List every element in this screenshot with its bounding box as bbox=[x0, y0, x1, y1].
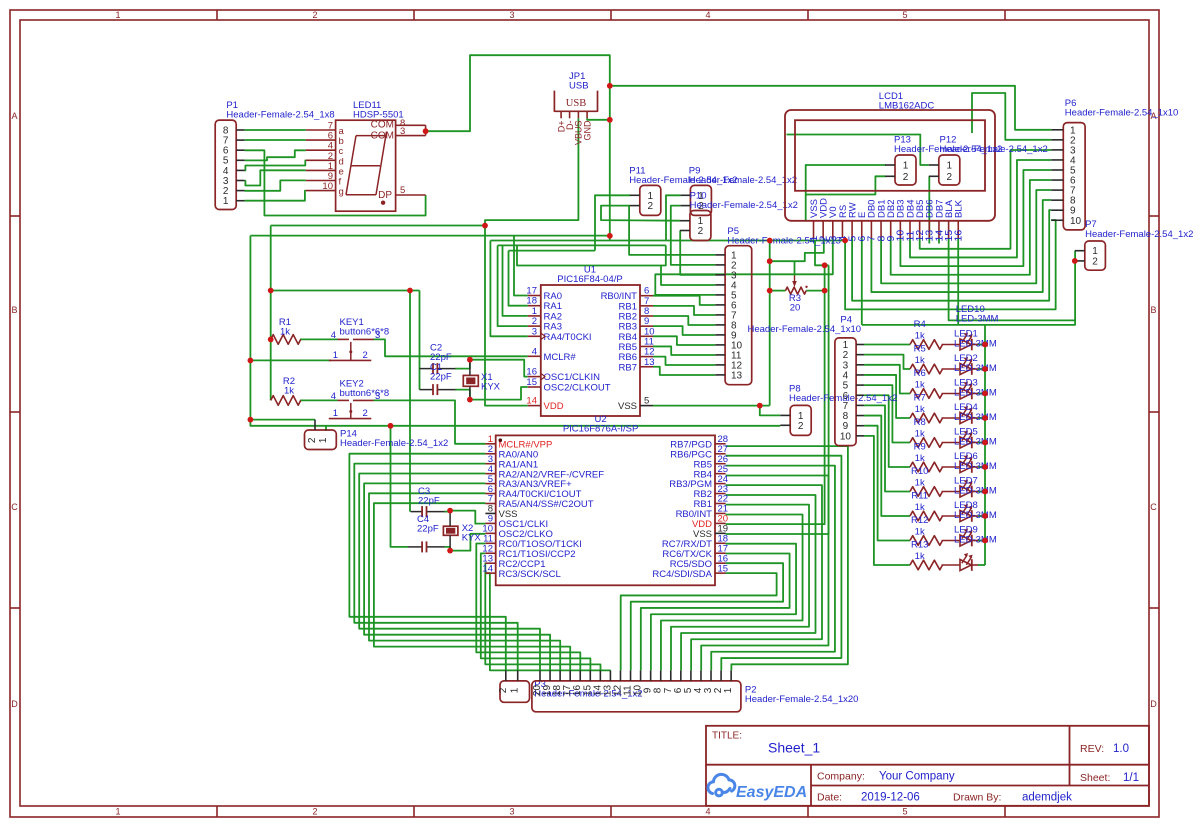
svg-text:RA4/T0CKI: RA4/T0CKI bbox=[544, 332, 592, 343]
wire P9.2-P5.2 bbox=[671, 206, 716, 265]
title block dividers bbox=[706, 764, 1149, 766]
U2 pin 28 RB7/PGD bbox=[715, 443, 726, 445]
svg-text:1/1: 1/1 bbox=[1123, 772, 1139, 784]
connector P9 Header-Female-2.54_1x2 bbox=[690, 185, 711, 215]
svg-text:4: 4 bbox=[331, 330, 336, 341]
wire X1-OSC1 bbox=[470, 360, 528, 377]
wire U1.RB2-P5.8 bbox=[653, 316, 715, 325]
wire P1.1-LED11.g bbox=[245, 191, 306, 201]
svg-text:B: B bbox=[11, 305, 17, 315]
capacitor C1 22pF bbox=[420, 389, 434, 391]
wire P12.2-int bbox=[928, 176, 930, 238]
U2 pin 22 RB1 bbox=[715, 503, 726, 505]
LED11 left pin stubs bbox=[306, 129, 336, 131]
wire U2.right10-P2 bbox=[631, 563, 783, 670]
svg-text:1k: 1k bbox=[915, 429, 925, 440]
wire U2.right1-P2 bbox=[721, 456, 841, 671]
wire U1.VSS-row bbox=[653, 405, 770, 407]
svg-text:Header-Female-2.54_1x8: Header-Female-2.54_1x8 bbox=[226, 110, 334, 121]
svg-text:2: 2 bbox=[698, 226, 704, 237]
wire VDD-trunk-824 bbox=[726, 265, 825, 524]
U1 pin 5 VSS bbox=[640, 405, 653, 407]
svg-text:BLK: BLK bbox=[954, 199, 965, 218]
crystal X1 KYX bbox=[463, 375, 478, 386]
frame column ticks bottom bbox=[216, 806, 218, 817]
R3 wiper arrow bbox=[794, 276, 796, 284]
svg-text:R13: R13 bbox=[911, 540, 928, 551]
svg-text:OSC2/CLKOUT: OSC2/CLKOUT bbox=[544, 383, 611, 394]
LED11 DP dot bbox=[381, 201, 385, 205]
svg-text:R5: R5 bbox=[914, 344, 926, 355]
LED LED6 LED-3MM bbox=[942, 466, 961, 468]
U1 pin 12 RB6 bbox=[640, 356, 653, 358]
P4 pin stubs and numbers bbox=[856, 344, 864, 346]
wire P4.10-R13 bbox=[864, 436, 910, 565]
svg-text:REV:: REV: bbox=[1080, 743, 1104, 755]
P3 pin stubs bbox=[505, 670, 507, 681]
junction trunk-jog bbox=[607, 233, 613, 239]
wire R1-KEY1 bbox=[300, 338, 338, 340]
wire U2.RC2-bottom bbox=[485, 563, 600, 670]
U2 pin 11 RC0/T1OSO/T1CKI bbox=[485, 542, 495, 544]
U2 pin 4 RA2/AN2/VREF-/CVREF bbox=[485, 473, 495, 475]
svg-text:2019-12-06: 2019-12-06 bbox=[861, 791, 920, 803]
svg-text:LED-3MM: LED-3MM bbox=[954, 412, 997, 423]
junction X1 top bbox=[467, 357, 473, 363]
wire C3-right bbox=[445, 511, 451, 513]
svg-text:g: g bbox=[339, 187, 344, 198]
wire P4.8-R11 bbox=[864, 416, 910, 516]
svg-text:LED-3MM: LED-3MM bbox=[954, 387, 997, 398]
wire U2.right8-P2 bbox=[651, 544, 796, 671]
U1 pin 10 RB4 bbox=[640, 335, 653, 337]
svg-text:B: B bbox=[1150, 305, 1156, 315]
svg-text:Header-Female-2.54_1x2: Header-Female-2.54_1x2 bbox=[690, 200, 798, 211]
svg-text:2: 2 bbox=[363, 350, 368, 361]
svg-text:4: 4 bbox=[705, 807, 710, 817]
wire P11.2-P5.1 bbox=[629, 206, 715, 255]
resistor R5 1k bbox=[910, 364, 943, 374]
svg-text:EasyEDA: EasyEDA bbox=[736, 784, 807, 801]
U2 pin 14 RC3/SCK/SCL bbox=[485, 572, 495, 574]
svg-text:16: 16 bbox=[953, 230, 965, 242]
svg-text:RC4/SDI/SDA: RC4/SDI/SDA bbox=[652, 569, 712, 580]
wire LCD.DB7-tail bbox=[938, 238, 940, 244]
wire LCD.RS-P6.10 bbox=[845, 220, 1056, 309]
wire row-2506 bbox=[509, 250, 596, 252]
wire P4.2-R5 bbox=[864, 355, 910, 369]
wire P1.8-LED11.a bbox=[245, 129, 306, 131]
junction VCC top bbox=[607, 83, 613, 89]
connector P7 Header-Female-2.54_1x2 bbox=[1085, 241, 1106, 270]
wire P13.2-int bbox=[806, 176, 886, 194]
wire LED7-cathode bbox=[978, 491, 985, 493]
wire U1.RB5-P5.11 bbox=[653, 346, 715, 355]
P11 pin 2 stub bbox=[630, 205, 640, 207]
wire LED11.COM-top-trunk bbox=[426, 55, 610, 131]
wire jog-235-240 bbox=[609, 236, 611, 241]
P6 pin stubs and numbers bbox=[1051, 129, 1063, 131]
resistor R12 1k bbox=[910, 536, 943, 546]
module LCD1 LMB162ADC outer bbox=[785, 110, 995, 221]
svg-text:PIC16F876A-I/SP: PIC16F876A-I/SP bbox=[563, 423, 639, 434]
wire U2.left2-bottom bbox=[349, 454, 505, 671]
wire U2.right7-P2 bbox=[661, 515, 803, 671]
wire LCD.DB2-P6.6 bbox=[891, 180, 1051, 275]
U2 pin 27 RB6/PGC bbox=[715, 453, 726, 455]
svg-text:R11: R11 bbox=[911, 491, 928, 502]
wire RS-row bbox=[490, 240, 845, 242]
connector P2 Header-Female-2.54_1x20 bbox=[532, 681, 741, 712]
wire P1.3-LED11.e bbox=[245, 170, 306, 185]
crystal X2 KYX bbox=[443, 526, 458, 535]
svg-text:1: 1 bbox=[333, 350, 338, 361]
U1 pin 18 RA1 bbox=[528, 305, 541, 307]
junction GND-trunk-240 bbox=[767, 238, 773, 244]
U2 pin 1 MCLR#/VPP bbox=[485, 443, 495, 445]
resistor R6 1k bbox=[910, 389, 943, 399]
wire R3-wiper-up bbox=[794, 261, 796, 275]
svg-text:2: 2 bbox=[312, 807, 317, 817]
wire U2.left3-bottom bbox=[354, 464, 517, 671]
wire U1.RB6-P5.12 bbox=[653, 357, 715, 365]
wire JP1.GND-trunk bbox=[587, 118, 610, 120]
wire U1.RB7-P5.13 bbox=[653, 367, 715, 375]
junction LED11 COM bbox=[423, 128, 429, 134]
wire LCD.BLK-net bbox=[957, 238, 959, 325]
wire LCD.RW-P6.9 bbox=[852, 210, 1051, 301]
svg-text:LED-3MM: LED-3MM bbox=[956, 314, 999, 325]
wire U1.RB1-P5.7 bbox=[653, 306, 715, 315]
connector P12 Header-Female-2.54_1x2 bbox=[939, 155, 960, 185]
P12 pin 2 stub bbox=[929, 175, 939, 177]
wire P4.6-R9 bbox=[864, 395, 910, 467]
svg-text:1: 1 bbox=[723, 687, 734, 693]
wire P12.1-int bbox=[787, 135, 929, 166]
resistor R10 1k bbox=[910, 487, 943, 497]
LED LED5 LED-3MM bbox=[942, 442, 961, 444]
LED11 pin COM 8 bbox=[396, 124, 426, 126]
svg-text:1k: 1k bbox=[280, 327, 290, 338]
wire U1.RB4-P5.10 bbox=[653, 336, 715, 345]
wire U1.RB0-P5.6 bbox=[653, 296, 715, 305]
U2 pin 20 VDD bbox=[715, 522, 726, 524]
wire RA0-elbow bbox=[514, 236, 528, 296]
LED LED8 LED-3MM bbox=[942, 515, 961, 517]
svg-text:R4: R4 bbox=[914, 319, 926, 330]
P5 pin stubs and numbers bbox=[715, 254, 725, 256]
svg-text:13: 13 bbox=[644, 357, 655, 368]
U2 pin1 marker dot bbox=[499, 438, 503, 442]
wire U2.right4-P2 bbox=[691, 485, 822, 670]
wire P1.4-LED11.d bbox=[245, 160, 306, 170]
junction VBUS-485 bbox=[482, 223, 488, 229]
wire P11.1-net bbox=[595, 195, 630, 250]
U2 pin 24 RB3/PGM bbox=[715, 483, 726, 485]
U2 pin 21 RB0/INT bbox=[715, 512, 726, 514]
wire LCD.VDD-elbow bbox=[770, 238, 824, 261]
junction R3 right bbox=[822, 288, 828, 294]
wire U1.RB3-P5.9 bbox=[653, 326, 715, 335]
P8 pin stubs bbox=[780, 414, 790, 416]
svg-text:1: 1 bbox=[115, 807, 120, 817]
P13 pin 2 stub bbox=[885, 175, 895, 177]
U2 pin 13 RC2/CCP1 bbox=[485, 562, 495, 564]
display LED11 HDSP-5501 bbox=[336, 120, 396, 211]
U2 pin 23 RB2 bbox=[715, 493, 726, 495]
svg-text:R12: R12 bbox=[911, 515, 928, 526]
svg-text:LED-3MM: LED-3MM bbox=[954, 485, 997, 496]
P9 pin 1 stub bbox=[680, 194, 690, 196]
svg-text:4: 4 bbox=[705, 10, 710, 20]
svg-text:1k: 1k bbox=[284, 386, 294, 397]
wire P6.2-feed bbox=[972, 93, 1051, 140]
wire U2.right5-P2 bbox=[681, 495, 815, 670]
wire P4.7-R10 bbox=[864, 405, 910, 491]
svg-text:C: C bbox=[1150, 502, 1157, 512]
svg-text:3: 3 bbox=[375, 330, 380, 341]
wire LCD.E-net bbox=[861, 238, 863, 325]
wire P4.1-R4 bbox=[864, 344, 910, 346]
IC U2 PIC16F876A-I/SP bbox=[496, 435, 715, 585]
U1 pin 14 VDD bbox=[528, 405, 541, 407]
svg-text:1k: 1k bbox=[915, 404, 925, 415]
capacitor C4 22pF bbox=[408, 546, 422, 548]
module LCD1 inner screen bbox=[795, 120, 985, 191]
wire C2-right bbox=[455, 360, 470, 369]
connector P1 Header-Female-2.54_1x8 bbox=[215, 120, 236, 209]
svg-text:GND: GND bbox=[582, 120, 592, 141]
svg-text:4: 4 bbox=[532, 346, 537, 357]
svg-text:Header-Female-2.54_1x2: Header-Female-2.54_1x2 bbox=[689, 175, 797, 186]
resistor R8 1k bbox=[910, 438, 943, 448]
connector P5 Header-Female-2.54_1x13 bbox=[725, 246, 752, 385]
svg-text:3: 3 bbox=[509, 10, 514, 20]
U1 pin 8 RB2 bbox=[640, 315, 653, 317]
U2 pin 8 VSS bbox=[485, 512, 495, 514]
U2 pin 7 RA5/AN4/SS#/C2OUT bbox=[485, 503, 495, 505]
U1 clock triangles bbox=[541, 333, 545, 340]
wire RA4-elbow bbox=[490, 241, 527, 337]
junction U1.VSS-row bbox=[757, 403, 763, 409]
U1 pin 2 RA3 bbox=[528, 325, 541, 327]
svg-text:C: C bbox=[11, 502, 18, 512]
P10 pin 1 stub bbox=[680, 220, 690, 222]
svg-text:Header-Female-2.54_1x2: Header-Female-2.54_1x2 bbox=[940, 144, 1048, 155]
wire P5.4-wrap bbox=[517, 245, 715, 285]
svg-text:5: 5 bbox=[902, 10, 907, 20]
wire LCD.DB4-P6.4 bbox=[910, 160, 1051, 257]
wire P4.9-R12 bbox=[864, 426, 910, 541]
wire trunk-left-vertical bbox=[250, 236, 780, 426]
svg-text:Sheet:: Sheet: bbox=[1080, 772, 1110, 784]
svg-text:22pF: 22pF bbox=[430, 371, 452, 382]
frame column ticks top bbox=[216, 10, 218, 20]
svg-text:R10: R10 bbox=[911, 466, 928, 477]
svg-text:5: 5 bbox=[644, 396, 649, 407]
svg-text:LED-3MM: LED-3MM bbox=[954, 338, 997, 349]
junction X2 top bbox=[447, 508, 453, 514]
svg-text:ademdjek: ademdjek bbox=[1022, 791, 1072, 803]
connector P10 Header-Female-2.54_1x2 bbox=[690, 211, 711, 241]
svg-text:LMB162ADC: LMB162ADC bbox=[879, 101, 935, 112]
frame row ticks right bbox=[1149, 215, 1159, 217]
wire GND-trunk-x769 bbox=[769, 240, 771, 405]
wire KEY2.3-U2.MCLR bbox=[374, 400, 486, 443]
wire P4.5-R8 bbox=[864, 385, 910, 442]
resistor R1 1k bbox=[271, 335, 301, 345]
LCD1 pin stubs bbox=[813, 221, 815, 238]
svg-text:4: 4 bbox=[331, 391, 336, 402]
svg-text:Header-Female-2.54_1x10: Header-Female-2.54_1x10 bbox=[1065, 108, 1179, 119]
wire LED4-cathode bbox=[978, 417, 985, 419]
U1 pin 17 RA0 bbox=[528, 295, 541, 297]
U2 pin 10 OSC2/CLKO bbox=[485, 532, 495, 534]
svg-text:20: 20 bbox=[790, 303, 801, 314]
U2 pin 6 RA4/T0CKI/C1OUT bbox=[485, 493, 495, 495]
U2 pin 25 RB4 bbox=[715, 473, 726, 475]
switch KEY2 button6*6*8 bbox=[338, 399, 350, 401]
IC U1 PIC16F84-04/P bbox=[541, 285, 640, 416]
wire LCD.DB0-P6.8 bbox=[871, 200, 1051, 292]
P12 pin 1 stub bbox=[929, 164, 939, 166]
wire RA2-elbow bbox=[503, 245, 528, 316]
connector P11 Header-Female-2.54_1x2 bbox=[640, 185, 661, 215]
svg-text:RB7: RB7 bbox=[619, 362, 637, 373]
svg-text:13: 13 bbox=[731, 370, 743, 381]
P1 pin stubs bbox=[236, 129, 244, 131]
U1 pin 1 RA2 bbox=[528, 315, 541, 317]
svg-text:D: D bbox=[11, 699, 18, 709]
connector P13 Header-Female-2.54_1x2 bbox=[895, 155, 916, 185]
junction R-column-290 bbox=[268, 288, 274, 294]
wire KEY2-bottom-row bbox=[250, 419, 315, 421]
wire P10.2-P5.3 bbox=[680, 231, 715, 275]
wire LCD.DB3-P6.5 bbox=[900, 170, 1051, 266]
LED11 pin DP 5 bbox=[396, 194, 426, 196]
U1 pin 4 MCLR# bbox=[528, 355, 541, 357]
junction VDD-824-265 bbox=[822, 262, 828, 268]
wire P9.1-vert bbox=[666, 195, 680, 240]
wire VSS-trunk-828 bbox=[726, 265, 829, 534]
svg-text:2: 2 bbox=[903, 172, 909, 183]
wire LED-rail bbox=[984, 325, 986, 565]
svg-text:1k: 1k bbox=[915, 453, 925, 464]
junction R3 left bbox=[767, 288, 773, 294]
resistor R2 1k bbox=[271, 396, 301, 406]
svg-text:TITLE:: TITLE: bbox=[712, 731, 742, 742]
svg-text:Header-Female-2.54_1x20: Header-Female-2.54_1x20 bbox=[745, 694, 859, 705]
svg-text:MCLR#: MCLR# bbox=[544, 352, 577, 363]
capacitor C2 22pF bbox=[420, 368, 434, 370]
U1 pin 6 RB0/INT bbox=[640, 295, 653, 297]
wire net-row-225 bbox=[271, 225, 485, 227]
wire R-cluster-column bbox=[270, 226, 272, 401]
svg-text:1k: 1k bbox=[915, 527, 925, 538]
LED11 seven segment figure bbox=[356, 135, 385, 137]
wire P8.1-branch bbox=[760, 406, 781, 416]
resistor R3 20 bbox=[786, 287, 807, 294]
wire JP1.VBUS-down bbox=[485, 118, 578, 225]
svg-text:1: 1 bbox=[115, 10, 120, 20]
U2 pin 5 RA3/AN3/VREF+ bbox=[485, 483, 495, 485]
wire LCD.DB1-P6.7 bbox=[881, 190, 1051, 283]
U2 pin 2 RA0/AN0 bbox=[485, 453, 495, 455]
svg-text:COM: COM bbox=[371, 120, 394, 131]
connector P14 Header-Female-2.54_1x2 rotated bbox=[305, 430, 337, 450]
svg-text:3: 3 bbox=[509, 807, 514, 817]
LED LED4 LED-3MM bbox=[942, 417, 961, 419]
junction KEY1 bottom row bbox=[248, 358, 254, 364]
svg-text:1k: 1k bbox=[915, 380, 925, 391]
svg-text:2: 2 bbox=[798, 421, 804, 432]
svg-text:OSC1/CLKIN: OSC1/CLKIN bbox=[544, 372, 601, 383]
wire U2.right3-P2 bbox=[701, 476, 828, 671]
P7 pin stubs bbox=[1075, 250, 1085, 252]
U2 pin 26 RB5 bbox=[715, 463, 726, 465]
U2 pin 17 RC6/TX/CK bbox=[715, 552, 726, 554]
svg-text:3: 3 bbox=[400, 126, 405, 137]
svg-text:14: 14 bbox=[526, 396, 537, 407]
svg-text:Date:: Date: bbox=[817, 791, 842, 803]
svg-text:R8: R8 bbox=[914, 417, 926, 428]
svg-text:15: 15 bbox=[526, 377, 537, 388]
wire U2.RC0-bottom bbox=[476, 544, 580, 671]
junction GND-trunk-261 bbox=[767, 258, 773, 264]
wire U2.right6-P2 bbox=[671, 505, 809, 671]
wire P14.1-stub-up bbox=[325, 426, 327, 431]
svg-text:1: 1 bbox=[318, 437, 329, 443]
svg-text:LED-3MM: LED-3MM bbox=[954, 436, 997, 447]
wire LED5-cathode bbox=[978, 442, 985, 444]
P9 pin 2 stub bbox=[680, 205, 690, 207]
LED LED7 LED-3MM bbox=[942, 491, 961, 493]
svg-text:R7: R7 bbox=[914, 393, 926, 404]
svg-text:2: 2 bbox=[312, 10, 317, 20]
wire row-2454 bbox=[498, 244, 666, 246]
svg-text:5: 5 bbox=[902, 807, 907, 817]
svg-text:1k: 1k bbox=[915, 551, 925, 562]
svg-text:LED-3MM: LED-3MM bbox=[954, 461, 997, 472]
wire P4.3-R6 bbox=[864, 365, 910, 394]
svg-text:RC3/SCK/SCL: RC3/SCK/SCL bbox=[499, 569, 561, 580]
svg-text:10: 10 bbox=[322, 181, 333, 192]
wire U2.left7-bottom bbox=[374, 503, 570, 670]
svg-text:1.0: 1.0 bbox=[1113, 743, 1129, 755]
resistor R4 1k bbox=[910, 340, 943, 350]
svg-text:3: 3 bbox=[532, 326, 537, 337]
svg-text:22pF: 22pF bbox=[417, 524, 439, 535]
wire LED9-cathode bbox=[978, 540, 985, 542]
svg-text:1: 1 bbox=[510, 687, 521, 693]
wire LCD.DB5-P6.3 bbox=[920, 150, 1051, 249]
LED LED2 LED-3MM bbox=[942, 368, 961, 370]
wire C4-drop bbox=[391, 426, 409, 547]
wire P13.1-int bbox=[806, 165, 886, 221]
resistor R13 1k bbox=[910, 560, 943, 570]
junction P7.2 bbox=[1072, 258, 1078, 264]
svg-text:USB: USB bbox=[566, 98, 586, 109]
svg-text:Company:: Company: bbox=[817, 771, 865, 783]
LED LED3 LED-3MM bbox=[942, 393, 961, 395]
LED LED1 LED-3MM bbox=[942, 344, 961, 346]
svg-text:VSS: VSS bbox=[618, 401, 637, 412]
svg-text:1k: 1k bbox=[915, 355, 925, 366]
wire row-2454-zjog bbox=[661, 245, 666, 265]
svg-text:1: 1 bbox=[223, 196, 229, 207]
wire KEY1.3-U1.MCLR bbox=[374, 339, 528, 356]
svg-text:3: 3 bbox=[375, 391, 380, 402]
